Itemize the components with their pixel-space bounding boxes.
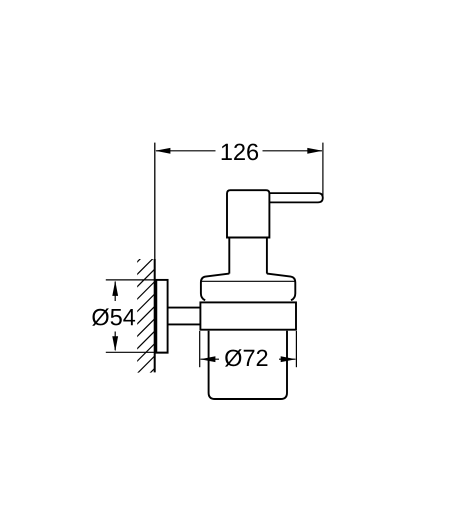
holder arm	[168, 308, 200, 325]
pump neck	[229, 238, 267, 274]
dim 126: left arrow	[155, 148, 170, 154]
dim 126: dimension line	[156, 150, 322, 152]
dim Ø72: left arrow	[200, 356, 215, 362]
dim 126: right extension line	[322, 143, 324, 197]
dim 126: label	[222, 144, 258, 161]
dim Ø54: top extension line	[106, 279, 168, 281]
dim Ø72: left extension line	[199, 331, 201, 367]
dim Ø54: up arrow	[112, 281, 118, 296]
dim Ø54: down arrow	[112, 336, 118, 351]
wall hatching	[136, 244, 156, 388]
shoulder accent line	[201, 280, 295, 282]
dim 126: right arrow	[307, 148, 322, 154]
wall surface line (thick)	[154, 259, 156, 372]
dim Ø72: right extension line	[295, 331, 297, 367]
spout	[268, 193, 323, 202]
dim Ø72: dimension line	[201, 358, 296, 360]
dim Ø72: label	[225, 349, 267, 366]
holder collar ring	[200, 302, 296, 329]
shoulder dome outline	[201, 274, 229, 301]
glass container	[209, 331, 287, 399]
pump head	[227, 190, 269, 237]
dim Ø54: dimension line	[114, 282, 116, 351]
wall mount plate (rosette, side view)	[156, 280, 167, 353]
dim Ø54: label	[92, 308, 135, 325]
dim Ø72: right arrow	[281, 356, 296, 362]
dim Ø54: bottom extension line	[106, 351, 168, 353]
wall extension line (thin upper part, left extension of 126 dim)	[154, 143, 156, 260]
